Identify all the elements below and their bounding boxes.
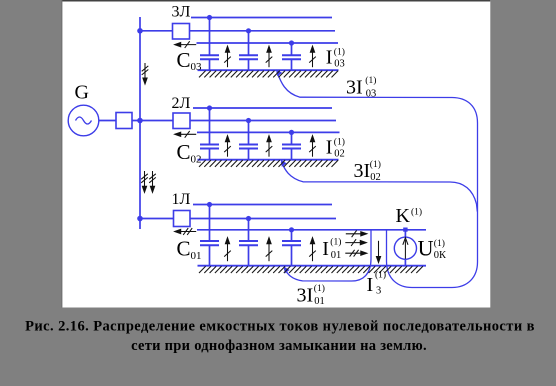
node: C03a tap [207, 15, 212, 20]
label U0K(1) [418, 235, 447, 261]
node: fault point K dot [403, 228, 407, 232]
svg-text:G: G [75, 81, 89, 103]
fault stem above circle [404, 230, 406, 237]
panel left border [61, 0, 63, 308]
capacitor C03 c [282, 43, 301, 70]
svg-text:02: 02 [334, 148, 345, 159]
bus current arrow pair left (down, double tick) [141, 171, 148, 192]
svg-text:I: I [367, 274, 374, 296]
feeder 2 phase wire B [190, 120, 336, 122]
capacitor C01 a [200, 205, 219, 266]
arrow inside fault circle (up) [403, 238, 408, 259]
node: C01b tap [246, 216, 251, 221]
capacitor C02 b [239, 121, 258, 160]
svg-text:Рис. 2.16. Распределение емкос: Рис. 2.16. Распределение емкостных токов… [25, 319, 535, 335]
phase A current arrow to fault (right, tick) [346, 230, 367, 237]
svg-text:(1): (1) [411, 206, 422, 217]
svg-text:I: I [326, 46, 333, 68]
ground line feeder 2 [198, 159, 339, 161]
capacitor C01 c [282, 230, 301, 266]
svg-text:01: 01 [331, 250, 342, 261]
wire breaker to bus and feeder 2 breaker [132, 120, 173, 122]
svg-text:1Л: 1Л [172, 191, 191, 208]
capacitive current arrow C03b (up, tick) [266, 46, 273, 67]
node: C02c tap [289, 130, 294, 135]
svg-text:0К: 0К [434, 250, 447, 261]
ground line feeder 3 [198, 69, 339, 71]
svg-text:(1): (1) [314, 283, 325, 294]
node: bus-feeder 1 junction [137, 216, 143, 222]
feeder 1 breaker current arrow (left, double tick) [175, 228, 197, 235]
ground hatching feeder 1 [199, 266, 423, 273]
figure panel (white background box) [62, 0, 491, 308]
svg-text:U: U [418, 235, 434, 260]
fault stem below circle [404, 259, 406, 266]
capacitor C02 a [200, 108, 219, 160]
svg-text:03: 03 [366, 88, 377, 99]
svg-text:(1): (1) [370, 159, 381, 170]
bus current arrow (feeder 3 current flowing down) with double tick [142, 63, 149, 84]
feeder 3 phase wire C [197, 42, 339, 44]
generator breaker square [116, 113, 132, 129]
svg-text:I: I [326, 136, 333, 158]
svg-text:3I: 3I [297, 284, 314, 306]
svg-text:3: 3 [376, 286, 381, 297]
svg-text:I: I [322, 238, 329, 260]
capacitive current arrow C02c (up, tick) [309, 136, 316, 157]
ground hatching feeder 3 [199, 71, 338, 78]
label I01(1) [322, 236, 341, 261]
capacitor C02 c [282, 132, 301, 159]
capacitor C03 b [239, 31, 258, 70]
label 3I03(1) [346, 75, 376, 99]
capacitive current arrow C03c (up, tick) [309, 46, 316, 67]
node: bus-feeder 3 junction [137, 28, 143, 34]
wire bus to feeder 1 breaker [140, 218, 174, 220]
capacitor C01 b [239, 219, 258, 266]
ground line feeder 1 [198, 265, 427, 267]
feeder 2 phase wire A [193, 107, 332, 109]
fault current I3 arrow (down) [376, 241, 380, 263]
svg-text:01: 01 [314, 296, 325, 307]
svg-text:3Л: 3Л [172, 4, 191, 21]
capacitive current arrow C03a (up, tick) [224, 46, 231, 67]
current path curve 3I02 merging [281, 162, 477, 212]
feeder 2 phase wire C [197, 131, 340, 133]
breaker square feeder 2 [173, 113, 190, 129]
label I03(1) [326, 46, 345, 69]
breaker square feeder 3 [173, 24, 190, 40]
svg-text:(1): (1) [434, 238, 445, 249]
svg-text:02: 02 [370, 172, 381, 183]
feeder 1 phase wire C (to fault K) [197, 229, 426, 231]
feeder 2 breaker current arrow (left, one tick) [175, 131, 197, 138]
node: C03b tap [246, 28, 251, 33]
feeder 1 phase wire A [193, 204, 332, 206]
svg-text:(1): (1) [334, 47, 345, 58]
wire bus to feeder 3 breaker [140, 30, 173, 32]
feeder 1 phase wire B [190, 218, 336, 220]
capacitive current arrow C01c (up, tick) [309, 238, 316, 262]
svg-text:3I: 3I [354, 160, 371, 182]
capacitor C03 a [200, 18, 219, 71]
feeder 3 phase wire A [191, 17, 332, 19]
generator G circle [68, 105, 99, 136]
generator sine symbol [76, 117, 92, 124]
breaker square feeder 1 [174, 211, 191, 227]
panel top border [62, 0, 491, 2]
feeder 3 breaker current arrow (left, one tick) [175, 41, 197, 48]
node: C02a tap [207, 105, 212, 110]
svg-text:(1): (1) [330, 236, 341, 247]
label I02(1) [326, 136, 345, 159]
arrowhead of 3I01 curve at feeder 1 ground [284, 267, 290, 274]
svg-text:(1): (1) [365, 75, 376, 86]
phase C current arrow to fault (right, double tick) [345, 250, 367, 257]
current path curve 3I03 return loop [277, 72, 478, 288]
svg-text:3I: 3I [346, 76, 363, 98]
node: C02b tap [246, 118, 251, 123]
current path curve 3I01 [284, 230, 371, 281]
wire generator to breaker [99, 120, 116, 122]
svg-text:K: K [396, 205, 411, 227]
feeder 3 phase wire B [190, 30, 336, 32]
fault voltage source circle U0K [394, 237, 416, 259]
svg-text:(1): (1) [375, 269, 386, 280]
busbar vertical [139, 17, 141, 229]
capacitive current arrow C01b (up, tick) [266, 238, 273, 262]
phase B current arrow to fault (right, tick) [345, 239, 366, 246]
capacitive current arrow C01a (up, tick) [224, 238, 231, 262]
bus current arrow pair right (down, double tick) [149, 171, 156, 192]
svg-text:2Л: 2Л [172, 95, 191, 112]
arrowhead of 3I02 curve at feeder 2 ground [281, 160, 287, 167]
node: C01a tap [207, 202, 212, 207]
label K(1) [396, 205, 423, 227]
capacitive current arrow C02b (up, tick) [266, 136, 273, 157]
node: C03c tap [289, 40, 294, 45]
svg-text:03: 03 [334, 58, 345, 69]
label I3(1) [367, 269, 387, 296]
label 3I02(1) [354, 159, 381, 183]
svg-text:сети при однофазном замыкании: сети при однофазном замыкании на землю. [131, 338, 427, 354]
ground hatching feeder 2 [199, 160, 338, 167]
node: bus-generator junction [137, 118, 143, 124]
svg-text:(1): (1) [334, 137, 345, 148]
label 3I01(1) [297, 283, 325, 307]
capacitive current arrow C02a (up, tick) [224, 136, 231, 157]
node: C01c tap [289, 227, 294, 232]
arrowhead of 3I03 curve at feeder 3 ground [276, 69, 282, 76]
